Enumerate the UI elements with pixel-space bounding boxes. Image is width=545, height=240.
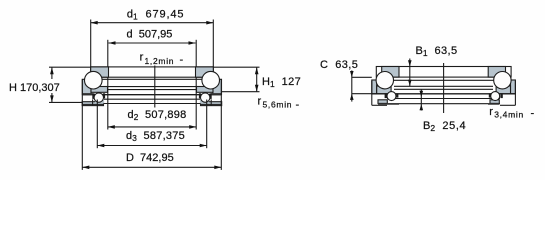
left bearing: bottom washer ends [82, 79, 221, 105]
cage section left of left small ball [92, 93, 94, 99]
wire washer edge y86 [108, 86, 196, 88]
cage section left of right small ball [199, 93, 201, 98]
right bearing: inner horizontal lines [372, 80, 516, 103]
wire H1 extension top [214, 66, 260, 68]
arrowhead d1 right [206, 21, 213, 25]
lower dims: d2 [108, 125, 196, 129]
wire washer edge y89 [108, 89, 196, 91]
svg-text:d2 507,898: d2 507,898 [128, 109, 187, 122]
arrowhead H1 top [255, 67, 259, 74]
wire d1 dimension line [91, 22, 214, 24]
arrowhead D left [82, 166, 89, 170]
C dimension [350, 70, 372, 101]
svg-text:B2 25,4: B2 25,4 [423, 120, 466, 133]
wire B1 leader [409, 59, 411, 87]
wire bottom face right (right view) [500, 104, 515, 106]
wire outer edge left (right view) [371, 81, 373, 106]
wire C dimension line [351, 70, 353, 101]
shaft washer outline (left view) [91, 67, 214, 77]
wire bottom face right [201, 104, 222, 106]
cage section right of left small ball [103, 93, 105, 98]
wire bottom face left [82, 104, 103, 106]
wire thick seat edge left (right view) [378, 103, 399, 105]
shaft washer section left (right view) [382, 67, 399, 78]
washer section under right small ball [200, 100, 209, 103]
wire washer bottom edge (right view) [387, 103, 500, 105]
dimension H vertical [49, 67, 91, 102]
arrowhead D right [214, 166, 221, 170]
wire outer edge right (right view) [514, 81, 516, 106]
B1 leader [408, 59, 412, 87]
wire thick seat edge left [82, 93, 92, 95]
wire C extension top [352, 76, 372, 78]
wire washer edge y93 (right view) [372, 93, 516, 95]
arrowhead d right [189, 41, 196, 45]
wire washer edge y99 [104, 98, 200, 100]
wire thick seat edge right [211, 93, 221, 95]
arrowhead B1 top [408, 60, 412, 66]
svg-text:1,2min: 1,2min [145, 56, 175, 66]
wire d2 dimension line [108, 126, 196, 128]
wire D extension right [220, 101, 222, 170]
wire outer edge right (D) [220, 79, 222, 105]
right bearing: top band [376, 67, 511, 78]
arrowhead C bottom [350, 94, 354, 100]
wire H extension top [49, 66, 91, 68]
wire washer edge y94 [82, 94, 221, 96]
wire H dimension line [51, 67, 53, 79]
svg-text:r: r [489, 106, 493, 118]
ball large right (right view) [494, 72, 511, 89]
B2 leader [420, 89, 424, 110]
wire B2 leader [420, 89, 422, 110]
wire d dimension line [109, 42, 196, 44]
arrowhead H1 bottom [255, 85, 259, 92]
wire d3 extension right [206, 100, 208, 149]
cage section right of right small ball (right view) [500, 93, 502, 98]
seat washer section right [201, 102, 222, 106]
left bearing: top shaft washer band [91, 67, 214, 77]
wire d1 extension right [212, 20, 214, 68]
svg-text:d1 679,45: d1 679,45 [127, 8, 184, 21]
arrowhead H top [50, 67, 54, 74]
housing washer section left [82, 79, 91, 94]
svg-text:H 170,307: H 170,307 [9, 82, 60, 94]
arrowhead d2 right [189, 125, 196, 129]
arrowhead d2 left [108, 125, 115, 129]
wire washer edge y80 (right view) [390, 79, 497, 81]
shaft washer section right [196, 67, 214, 77]
wire washer edge y89 (right view) [394, 88, 493, 90]
svg-text:d 507,95: d 507,95 [127, 29, 173, 41]
svg-text:5,6min: 5,6min [263, 99, 293, 109]
left bearing: inner horizontal lines [82, 79, 221, 103]
dimension d line [108, 40, 196, 130]
housing washer section right (right view) [511, 80, 516, 94]
washer section under left small ball (right view) [378, 100, 387, 104]
ball small right (right view) [491, 92, 500, 101]
svg-text:H1 127: H1 127 [262, 76, 301, 89]
arrowhead H bottom [50, 95, 54, 102]
housing washer section right [213, 79, 222, 94]
seat washer section left [82, 102, 103, 106]
svg-text:-: - [296, 99, 300, 111]
wire washer edge y79 [102, 78, 202, 80]
svg-text:-: - [531, 107, 535, 119]
wire d/d2 extension left [107, 40, 109, 130]
right bearing balls [376, 72, 511, 101]
right bearing: bottom washer ends [372, 81, 516, 106]
raceway section under right ball [197, 87, 214, 93]
svg-text:B1 63,5: B1 63,5 [416, 45, 458, 58]
left bearing balls [85, 71, 220, 102]
wire washer edge y86 (right view) [394, 85, 493, 87]
wire outer edge left (D) [81, 79, 83, 105]
wire C extension bottom [352, 93, 372, 95]
cage section right of left small ball (right view) [396, 93, 398, 97]
left bearing: outer ring sections [82, 79, 221, 94]
cage section left of left small ball (right view) [385, 93, 387, 98]
cage section right of right small ball [209, 93, 211, 99]
left bearing: cage blocks beside small balls [92, 93, 211, 99]
ball large left (left view) [85, 71, 103, 89]
cage section left of right small ball (right view) [489, 93, 491, 97]
shaft washer section left [91, 67, 109, 77]
svg-text:d3 587,375: d3 587,375 [126, 130, 185, 143]
lower dims: d3 [97, 100, 206, 149]
ball small left (right view) [387, 92, 396, 101]
arrowhead B2 bottom [420, 104, 424, 110]
wire H extension bottom [49, 101, 82, 103]
wire D dimension line [82, 166, 221, 168]
svg-text:r: r [258, 96, 262, 108]
svg-text:C 63,5: C 63,5 [320, 59, 358, 71]
lower dims: D [82, 101, 221, 170]
raceway section under left ball [91, 87, 108, 93]
ball large left (right view) [376, 72, 393, 89]
arrowhead C top [350, 71, 354, 77]
wire bottom face left (right view) [372, 104, 387, 106]
right bearing: outer ring sections [372, 80, 516, 94]
wire d3 dimension line [97, 145, 206, 147]
shaft washer outline (right view) [376, 67, 511, 78]
ball small right (left view) [201, 93, 210, 102]
washer section under right small ball (right view) [490, 100, 499, 104]
right bearing: cage blocks beside small balls [385, 93, 503, 98]
wire H1 dimension line [256, 67, 258, 92]
shaft washer section right (right view) [488, 67, 505, 78]
wire washer bottom edge y103 [104, 103, 200, 105]
raceway section under left ball (right view) [377, 86, 391, 94]
arrowhead d3 right [200, 144, 207, 148]
dimension H1 vertical [214, 67, 260, 92]
ball small left (left view) [94, 93, 103, 102]
wire H1 extension bottom [214, 91, 260, 93]
svg-text:3,4min: 3,4min [494, 109, 524, 119]
washer section under left small ball [95, 100, 104, 103]
ball large right (left view) [202, 71, 220, 89]
housing washer section left (right view) [372, 80, 377, 94]
wire seat step left [92, 99, 94, 105]
wire r1,2 leader [154, 66, 156, 108]
wire D extension left [81, 101, 83, 170]
arrowhead B2 top [420, 91, 424, 97]
wire seat step right [210, 99, 212, 105]
arrowhead B1 bottom [408, 80, 412, 86]
svg-text:-: - [180, 54, 184, 66]
dimension d1 line [91, 20, 214, 68]
wire d/d2 extension right [195, 40, 197, 130]
arrowhead d3 left [97, 144, 104, 148]
raceway section under right ball (right view) [496, 86, 510, 94]
svg-text:D 742,95: D 742,95 [126, 152, 174, 164]
arrowhead d left [109, 41, 116, 45]
wire d1 extension left [90, 20, 92, 68]
wire d3 extension left [96, 100, 98, 149]
wire washer edge y98 (right view) [387, 98, 500, 100]
svg-text:r: r [140, 52, 144, 64]
arrowhead d1 left [91, 21, 98, 25]
wire thick seat edge right (right view) [488, 103, 499, 105]
wire centerline (right view) [443, 63, 445, 113]
